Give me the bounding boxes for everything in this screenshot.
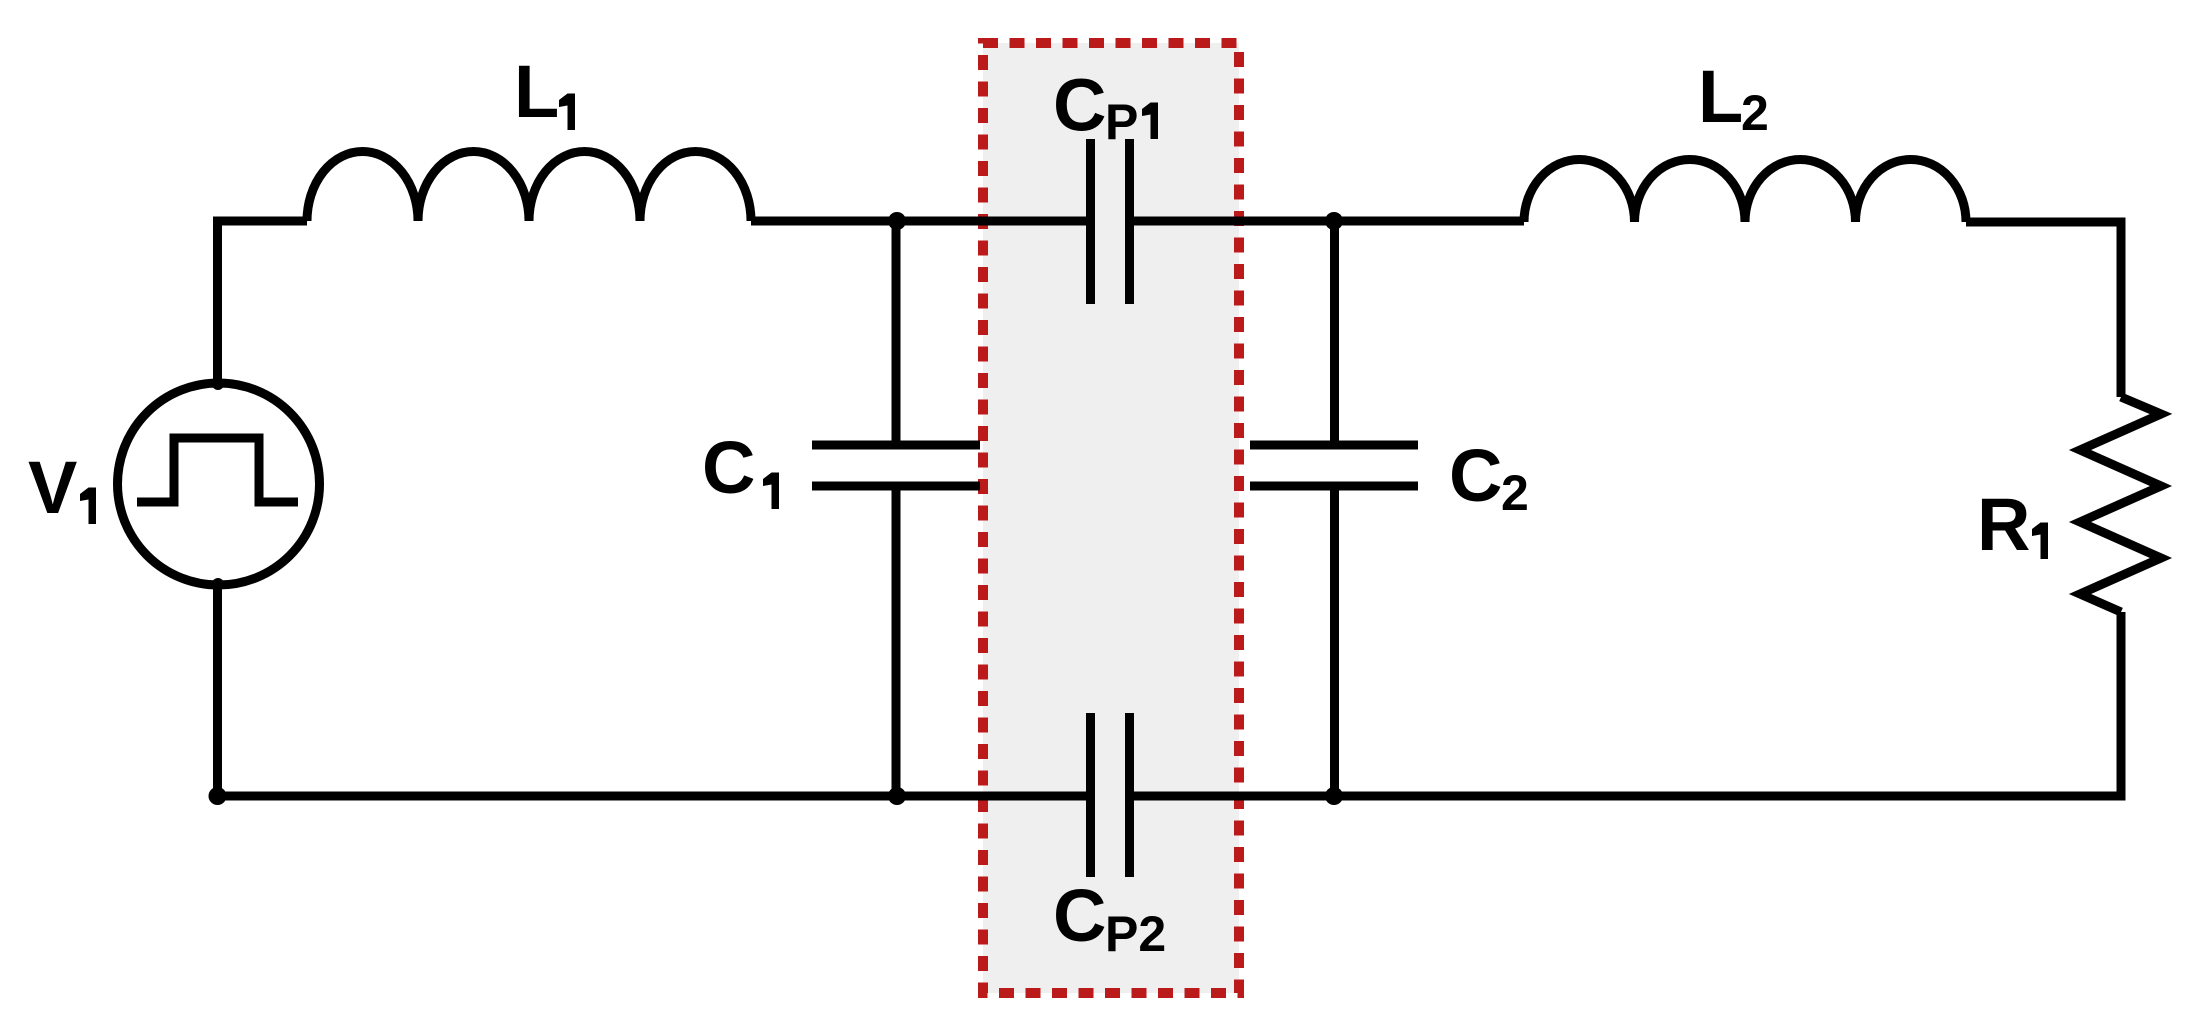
node B junction dot (top of C2) (1325, 212, 1343, 230)
voltage source V1 (pulse source) (118, 383, 320, 585)
svg-text:2: 2 (1501, 465, 1529, 521)
capacitor C2 top branch wire (1330, 221, 1339, 441)
capacitor C1 bottom branch wire (892, 490, 901, 796)
resistor R1 (2080, 397, 2161, 612)
inductor L2 (1524, 160, 1966, 222)
V1 pulse waveform symbol (137, 438, 298, 502)
svg-text:P2: P2 (1105, 906, 1166, 962)
svg-text:V: V (28, 446, 77, 529)
V1 bottom terminal dot (212, 578, 224, 590)
svg-text:P: P (1105, 94, 1138, 150)
svg-text:C: C (1053, 874, 1106, 957)
junction dot: bottom-left corner at V1 (209, 787, 227, 805)
inductor L1 (307, 152, 751, 221)
wire: CP1 right plate to L2 (through node B) (1134, 217, 1524, 226)
svg-text:L: L (1698, 55, 1743, 138)
wire: L1 to CP1 left plate (through node A) (751, 217, 1086, 226)
svg-text:L: L (514, 50, 559, 133)
dashed highlight box (parasitic capacitors CP1/CP2 region) (983, 43, 1239, 993)
capacitor C2 bottom branch wire (1330, 490, 1339, 796)
wire: CP2 left plate along bottom rail to bottom-left corner, up to V1 bottom terminal (218, 585, 1087, 796)
wire: L2 to top-right corner and down to R1 (1966, 222, 2121, 397)
capacitor CP2 (1091, 713, 1130, 877)
svg-text:C: C (1449, 434, 1502, 517)
svg-text:2: 2 (1741, 85, 1769, 141)
V1 top terminal dot (212, 378, 224, 390)
capacitor C1 top branch wire (892, 221, 901, 441)
wire: R1 bottom to bottom-right corner, bottom rail to CP2 right plate (1134, 612, 2121, 796)
junction dot: bottom of C1 branch on bottom rail (888, 787, 906, 805)
node A junction dot (top of C1) (888, 212, 906, 230)
junction dot: bottom of C2 branch on bottom rail (1325, 787, 1343, 805)
capacitor CP1 (1091, 139, 1130, 304)
capacitor C2 (1250, 445, 1418, 486)
wire: top-left corner, V1 top terminal up to top rail (218, 221, 308, 385)
svg-text:R: R (1977, 483, 2030, 566)
svg-text:C: C (702, 426, 755, 509)
capacitor C1 (812, 445, 980, 486)
svg-text:C: C (1053, 64, 1106, 147)
